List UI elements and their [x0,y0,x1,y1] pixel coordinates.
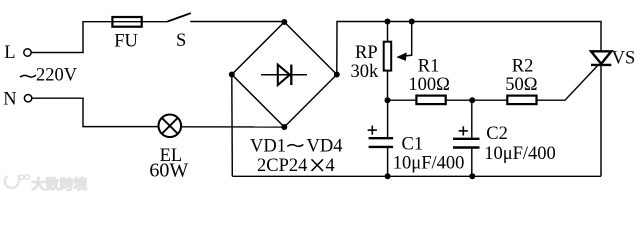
node bridge top [281,19,287,25]
svg-text:大数跨境: 大数跨境 [32,176,88,192]
watermark logo [5,175,30,188]
svg-text:RP: RP [355,43,378,63]
terminal N [24,95,31,102]
wire fuse to switch [143,21,168,23]
thyristor VS [591,51,611,176]
capacitor C1 [368,100,393,176]
svg-text:2CP24: 2CP24 [257,156,307,176]
svg-text:10μF/400: 10μF/400 [393,154,465,174]
wire switch to bridge top [190,21,284,23]
svg-text:VD1: VD1 [250,137,286,157]
switch S blade [168,13,191,21]
node mid rail C2 [469,97,475,103]
capacitor C2 [453,100,480,176]
svg-text:FU: FU [114,32,138,52]
svg-text:10μF/400: 10μF/400 [484,144,556,164]
node top rail RP [385,19,391,25]
label ~220V [20,75,36,77]
wire bridge right to top rail [337,22,601,75]
wire N to lamp [32,98,159,126]
svg-text:R1: R1 [418,57,440,77]
terminal L [24,49,31,56]
svg-text:VD4: VD4 [307,137,343,157]
node bottom rail C1 [385,173,391,179]
wire R2 to gate [537,65,599,100]
potentiometer RP [384,22,392,101]
svg-text:50Ω: 50Ω [505,75,537,95]
resistor R1 [416,96,445,105]
svg-text:L: L [4,43,15,63]
svg-text:C1: C1 [402,135,424,155]
resistor R2 [507,96,536,105]
node mid rail left [385,97,391,103]
svg-text:S: S [176,31,186,51]
diode symbol inside bridge [261,65,307,85]
wire bridge left down to bottom rail [231,75,234,177]
svg-text:VS: VS [612,48,636,68]
node bridge left [229,72,235,78]
svg-text:60W: 60W [149,160,188,182]
node top rail wiper [409,19,415,25]
lamp EL [159,115,182,138]
svg-text:30k: 30k [351,62,380,82]
svg-text:220V: 220V [36,66,78,86]
svg-text:100Ω: 100Ω [408,75,450,95]
svg-text:N: N [3,90,16,110]
fuse FU [112,17,144,27]
bottom rail [232,175,601,177]
wire lamp to bridge bottom [181,126,284,128]
RP wiper arrow [396,22,411,61]
wire mid rail to R1 [388,99,417,101]
wire R1 to R2 [446,99,508,101]
node bridge right [334,72,340,78]
node bottom rail C2 [469,173,475,179]
bridge rectifier VD1~VD4 diamond [232,22,337,127]
svg-text:C2: C2 [486,124,508,144]
svg-text:4: 4 [326,156,335,176]
node bridge bottom [281,124,287,130]
wire L to fuse [31,22,111,53]
svg-text:R2: R2 [512,57,534,77]
